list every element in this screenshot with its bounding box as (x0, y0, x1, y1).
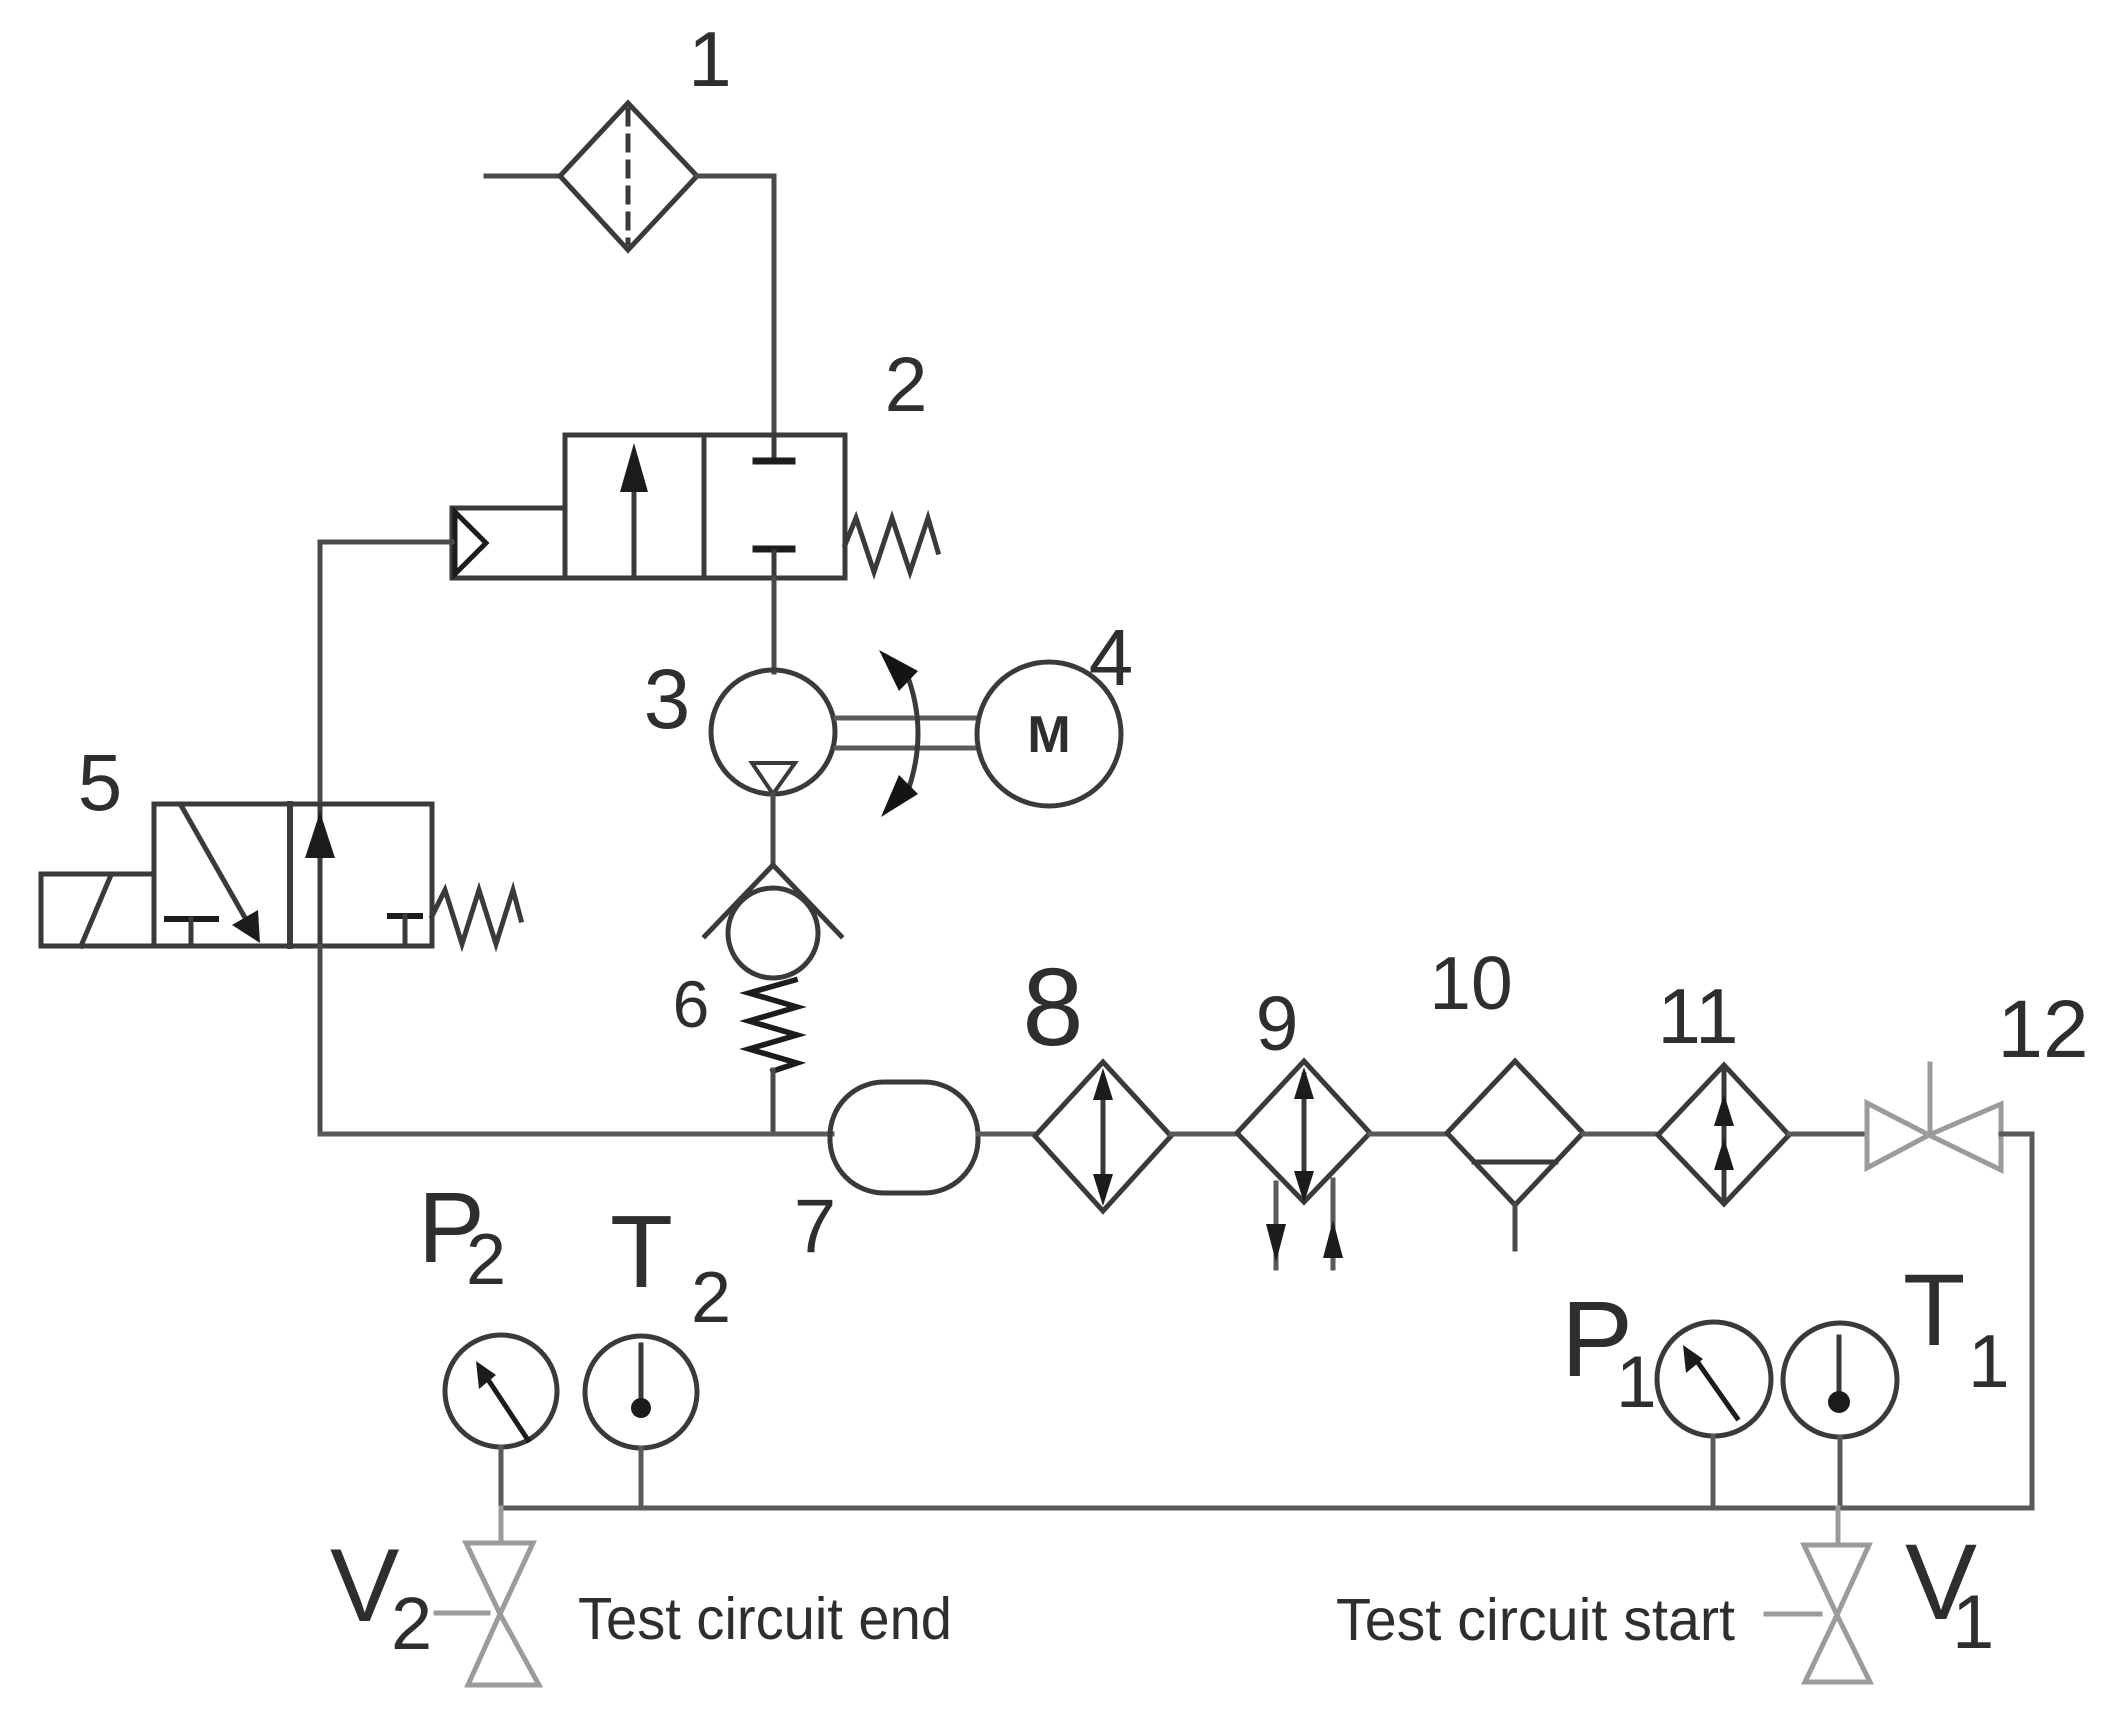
flow element 8 double arrow (1101, 1078, 1106, 1196)
wire valve 5 to main line (318, 946, 323, 1134)
wire valve 12 to manifold (2001, 1134, 2032, 1508)
valve 5 spring (432, 890, 521, 944)
element 11 arrows (1722, 1070, 1727, 1200)
gauge T2 stem (639, 1448, 644, 1508)
svg-text:1: 1 (1968, 1319, 2010, 1403)
gauge P2 circle (445, 1335, 557, 1447)
valve 2 blocked port top (772, 435, 777, 458)
svg-text:2: 2 (391, 1582, 432, 1665)
shaft pump to motor (836, 716, 977, 721)
rotation arrowhead bottom (881, 775, 918, 817)
valve V1 stem (1836, 1508, 1841, 1545)
damper 7 capsule (830, 1082, 978, 1193)
wire 10 to 11 (1583, 1132, 1658, 1137)
pump 3 circle (711, 670, 835, 794)
gauge T2 thermometer (639, 1345, 644, 1405)
valve 5 right blocked port (390, 913, 420, 919)
valve V1 bowtie (1804, 1545, 1869, 1615)
gauge T1 stem (1838, 1437, 1843, 1508)
svg-text:8: 8 (1022, 946, 1083, 1069)
svg-text:1: 1 (1952, 1580, 1994, 1665)
manifold line (501, 1506, 2032, 1511)
wire pilot line valve 2 to valve 5 (320, 542, 452, 804)
svg-text:T: T (610, 1194, 673, 1309)
check valve 6 seat (705, 865, 841, 936)
svg-text:7: 7 (794, 1184, 836, 1269)
valve 12 right triangle (1929, 1104, 2001, 1170)
check valve 6 spring (749, 980, 797, 1071)
element 9 double arrow (1302, 1075, 1307, 1197)
wire pump 3 to check valve 6 (771, 794, 776, 866)
valve 2 pilot triangle (455, 512, 486, 574)
svg-text:9: 9 (1256, 981, 1299, 1067)
filter 1 diamond (560, 103, 697, 250)
svg-text:1: 1 (688, 15, 731, 103)
valve 2 body (565, 435, 845, 578)
valve 12 stem (1928, 1064, 1933, 1135)
gauge P2 needle (487, 1378, 528, 1440)
valve 5 body (154, 804, 432, 946)
filter 1 dashed element (626, 110, 631, 243)
rotation arc (906, 672, 918, 796)
rotation arrowhead top (879, 650, 918, 691)
wire inlet to filter 1 (486, 174, 560, 179)
gauge P1 circle (1657, 1322, 1771, 1436)
valve 5 left blocked port (167, 916, 216, 922)
svg-text:4: 4 (1089, 613, 1134, 702)
valve 5 left diagonal arrow (182, 807, 248, 923)
wire 9 to 10 (1370, 1132, 1447, 1137)
motor 4 circle (977, 662, 1121, 806)
valve V1 dash (1766, 1612, 1820, 1617)
svg-text:10: 10 (1429, 941, 1512, 1025)
valve V2 dash (436, 1611, 488, 1616)
valve V2 bowtie (466, 1543, 533, 1614)
wire check valve 6 to node A (771, 1070, 776, 1134)
gauge T1 circle (1783, 1323, 1897, 1437)
gauge P1 needle (1694, 1357, 1737, 1418)
svg-text:2: 2 (466, 1220, 506, 1300)
gauge T1 thermometer (1837, 1337, 1842, 1398)
valve 2 blocked port bottom (756, 546, 792, 553)
svg-text:5: 5 (78, 738, 123, 827)
element 9 drain arrow up (1331, 1180, 1336, 1268)
svg-text:2: 2 (885, 342, 928, 428)
svg-text:M: M (1027, 706, 1070, 764)
gauge T2 circle (585, 1336, 697, 1448)
svg-text:Test circuit end: Test circuit end (578, 1586, 952, 1652)
check valve 6 ball (728, 888, 818, 978)
valve 12 left triangle (1867, 1103, 1929, 1168)
valve 2 spring (845, 518, 938, 572)
element 9 drain arrow down (1274, 1183, 1279, 1268)
valve 5 right flow arrow (318, 804, 323, 946)
valve 5 solenoid (41, 874, 154, 946)
filter 10 diamond (1447, 1061, 1583, 1205)
wire filter 1 to valve 2 (697, 176, 774, 435)
svg-text:V: V (330, 1528, 399, 1644)
svg-text:2: 2 (691, 1258, 731, 1338)
svg-text:3: 3 (644, 652, 691, 746)
svg-text:12: 12 (1997, 984, 2088, 1075)
valve V2 stem (499, 1508, 504, 1543)
svg-text:T: T (1903, 1253, 1965, 1367)
filter 10 liquid line (1474, 1160, 1556, 1165)
valve 2 flow arrow (632, 480, 637, 578)
valve 2 pilot box (452, 508, 565, 578)
wire 8 to 9 (1171, 1132, 1237, 1137)
gauge P1 stem (1711, 1436, 1716, 1508)
pump 3 inner triangle (752, 763, 795, 794)
svg-text:11: 11 (1658, 972, 1739, 1060)
gauge P2 stem (499, 1447, 504, 1543)
element 11 diamond (1658, 1065, 1789, 1204)
filter 10 drain stem (1513, 1205, 1518, 1249)
main line left segment (320, 1132, 832, 1137)
svg-text:1: 1 (1616, 1342, 1657, 1423)
element 9 diamond (1237, 1061, 1370, 1202)
wire valve 2 to pump 3 (772, 578, 777, 672)
wire 11 to valve 12 (1789, 1132, 1867, 1137)
svg-text:6: 6 (673, 967, 710, 1041)
wire 7 to 8 (978, 1132, 1036, 1137)
svg-text:Test circuit start: Test circuit start (1336, 1587, 1735, 1653)
flow element 8 diamond (1035, 1062, 1171, 1211)
